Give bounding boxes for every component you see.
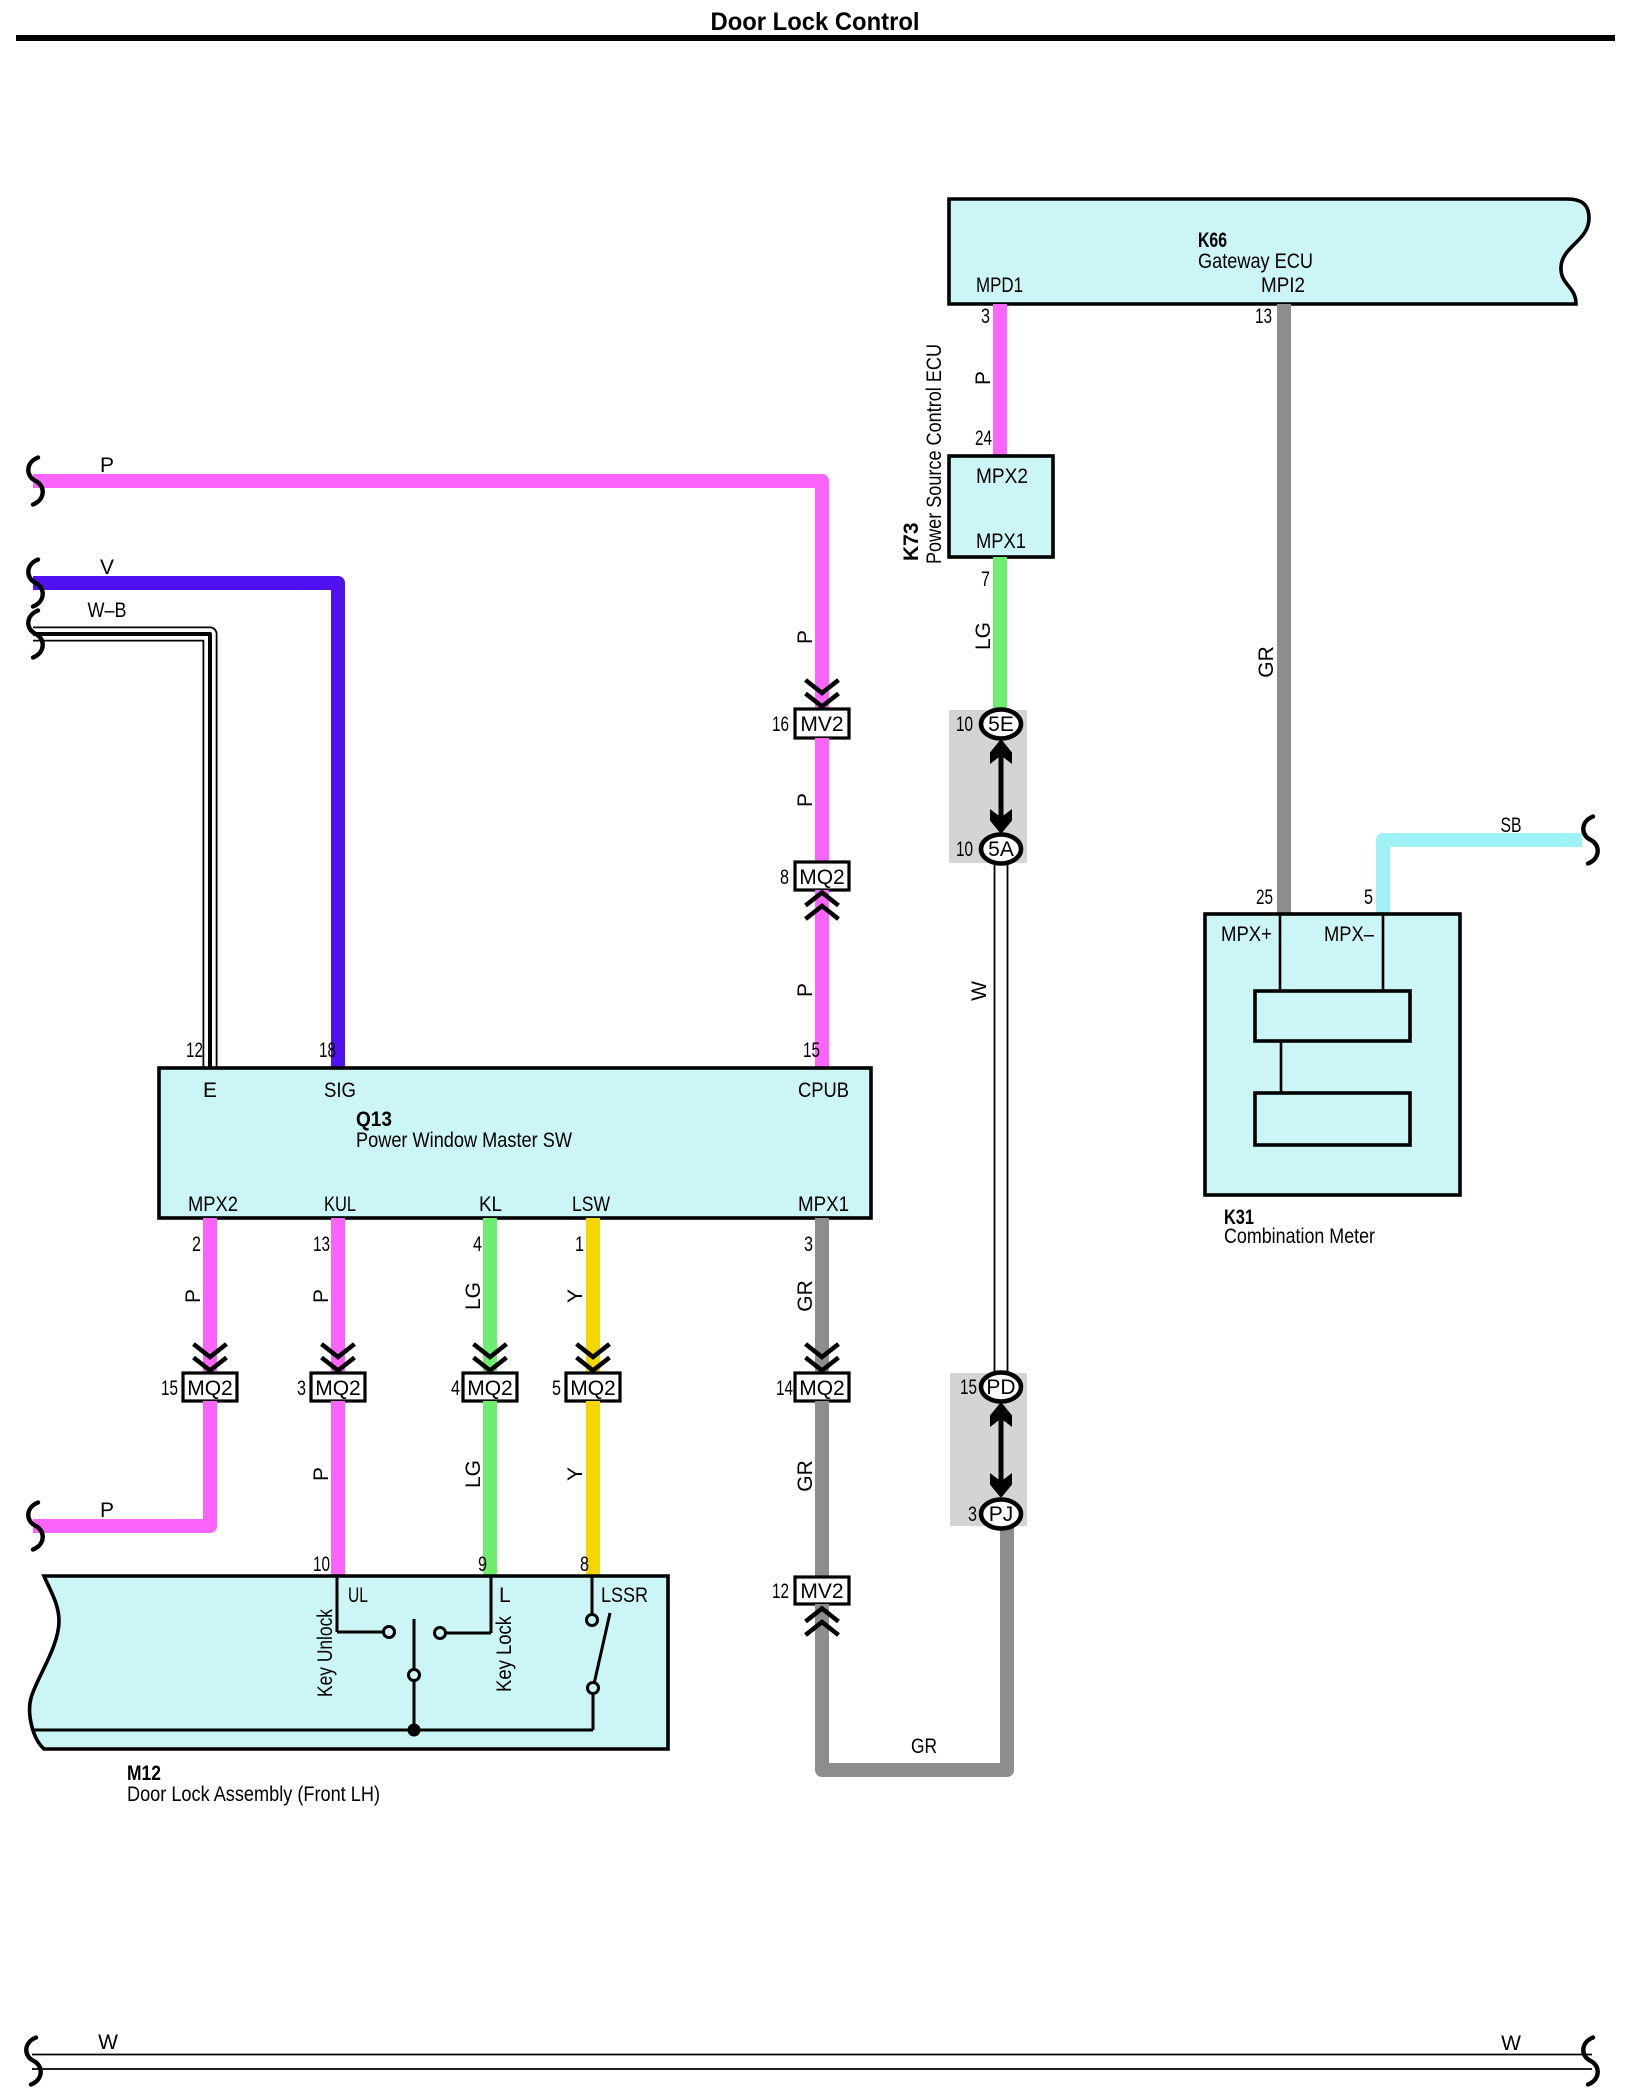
svg-text:5: 5: [1364, 886, 1373, 909]
M12 internal: LSSR lead: [591, 1576, 594, 1614]
box M12: [30, 1576, 668, 1749]
svg-text:5E: 5E: [988, 713, 1014, 736]
chevron out of MQ2: [806, 893, 839, 920]
arrow between 5E and 5A: [999, 745, 1004, 828]
svg-text:MPX1: MPX1: [798, 1193, 849, 1216]
splice panel 5E/5A: [949, 710, 1027, 863]
M12 internal: LSSR switch arm: [594, 1613, 610, 1684]
wire P : from break, right and down to MV2/MQ2 and Q13 CPUB: [33, 481, 822, 709]
svg-text:KL: KL: [479, 1193, 502, 1216]
svg-text:25: 25: [1256, 886, 1273, 909]
wire P : K66 MPD1 pin3 to K73 MPX2 pin24: [993, 304, 1007, 456]
wire LG : MQ2 pin4 to M12 pin9: [483, 1401, 497, 1575]
svg-text:MPX+: MPX+: [1221, 923, 1272, 946]
svg-text:10: 10: [956, 838, 973, 861]
wire GR : Q13 MPX1 to MQ2: [815, 1218, 829, 1373]
M12 internal: L contact: [435, 1628, 446, 1639]
M12 internal: bottom bus: [33, 1729, 593, 1732]
svg-text:4: 4: [451, 1377, 460, 1400]
wire LG : Q13 KL to MQ2: [483, 1218, 497, 1373]
internal lead MPX+: [1279, 914, 1282, 991]
svg-text:MPD1: MPD1: [976, 274, 1023, 297]
wire GR : MV2 pin12 down, right and up to splice PJ: [822, 1528, 1007, 1770]
svg-text:Y: Y: [564, 1289, 587, 1303]
svg-text:8: 8: [580, 1553, 589, 1576]
wire LG : K73 MPX1 pin7 to splice 5E: [993, 557, 1007, 710]
svg-text:P: P: [972, 371, 995, 385]
svg-text:GR: GR: [794, 1460, 817, 1492]
svg-text:LSW: LSW: [572, 1193, 610, 1216]
wire P : MQ2 to Q13 CPUB: [815, 890, 829, 1068]
M12 internal: UL lead: [336, 1576, 339, 1632]
svg-text:MV2: MV2: [800, 713, 843, 736]
svg-text:MV2: MV2: [800, 1580, 843, 1603]
svg-text:Power Window Master SW: Power Window Master SW: [356, 1129, 572, 1152]
connector MQ2 pin8: [795, 862, 849, 890]
svg-text:CPUB: CPUB: [798, 1079, 849, 1102]
svg-text:P: P: [100, 1499, 114, 1522]
svg-text:13: 13: [313, 1233, 330, 1256]
svg-text:UL: UL: [348, 1584, 368, 1607]
M12 internal: key switch pole: [413, 1619, 416, 1730]
svg-text:3: 3: [804, 1233, 813, 1256]
connector block K73 MPX2/MPX1: [949, 456, 1053, 557]
wire GR : MQ2 pin14 to MV2 pin12: [815, 1401, 829, 1577]
chevron into MV2: [806, 680, 839, 707]
svg-text:Key Unlock: Key Unlock: [314, 1609, 337, 1697]
ECU box K66 Gateway ECU: [949, 199, 1589, 304]
chevron out of MV2 pin12: [806, 1609, 839, 1636]
internal link: [1280, 1041, 1283, 1093]
svg-text:MQ2: MQ2: [570, 1377, 616, 1400]
svg-text:Key Lock: Key Lock: [493, 1616, 516, 1692]
wire break squiggle (SB): [1583, 817, 1597, 864]
svg-text:SB: SB: [1501, 814, 1522, 837]
svg-text:Combination Meter: Combination Meter: [1224, 1225, 1375, 1248]
svg-text:MQ2: MQ2: [315, 1377, 361, 1400]
svg-text:SIG: SIG: [324, 1079, 356, 1102]
svg-text:W–B: W–B: [88, 599, 127, 622]
connector oval PJ: [981, 1500, 1021, 1529]
connector MQ2 pin14: [795, 1373, 849, 1401]
box K31: [1205, 914, 1460, 1195]
svg-text:Power Source Control ECU: Power Source Control ECU: [923, 344, 946, 564]
svg-text:MPX1: MPX1: [976, 530, 1026, 553]
connector MQ2 pin5: [566, 1373, 620, 1401]
svg-text:P: P: [794, 793, 817, 807]
internal block 1: [1255, 991, 1410, 1041]
svg-text:Q13: Q13: [356, 1108, 392, 1131]
svg-text:7: 7: [981, 568, 990, 591]
chevron into MQ2 pin4: [474, 1344, 507, 1371]
wire Y : MQ2 pin5 to M12 pin8: [586, 1401, 600, 1575]
svg-text:MQ2: MQ2: [799, 866, 845, 889]
svg-text:10: 10: [313, 1553, 330, 1576]
svg-text:GR: GR: [1255, 646, 1278, 678]
wire SB : K31 pin5 up and right to break: [1383, 840, 1582, 914]
wire W : splice 5A to splice PD (white wire, double line): [994, 863, 996, 1374]
connector MV2 pin16: [795, 709, 849, 738]
M12 internal: UL contact: [384, 1627, 395, 1638]
chevron into MQ2 pin15: [194, 1344, 227, 1371]
svg-text:P: P: [794, 630, 817, 644]
chevron into MQ2 pin5: [577, 1344, 610, 1371]
svg-text:2: 2: [192, 1233, 201, 1256]
M12 internal: L lead: [490, 1576, 493, 1633]
svg-text:1: 1: [575, 1233, 584, 1256]
svg-text:W: W: [968, 981, 991, 1001]
svg-text:GR: GR: [911, 1735, 937, 1758]
svg-text:V: V: [100, 556, 114, 579]
svg-text:P: P: [182, 1289, 205, 1303]
chevron into MQ2 pin14: [806, 1344, 839, 1371]
title rule: [16, 35, 1615, 41]
svg-text:P: P: [100, 454, 114, 477]
svg-text:M12: M12: [127, 1762, 161, 1785]
connector MQ2 pin3: [311, 1373, 365, 1401]
svg-text:Door Lock Control: Door Lock Control: [711, 8, 920, 36]
svg-text:PJ: PJ: [989, 1503, 1014, 1526]
svg-text:13: 13: [1255, 305, 1272, 328]
svg-text:MPX2: MPX2: [976, 465, 1028, 488]
svg-text:14: 14: [776, 1377, 793, 1400]
wire P : MV2 to MQ2: [815, 738, 829, 862]
svg-text:3: 3: [297, 1377, 306, 1400]
wire P : Q13 MPX2 to MQ2: [203, 1218, 217, 1373]
connector MV2 pin12: [795, 1577, 849, 1604]
internal lead MPX-: [1382, 914, 1385, 991]
svg-text:W: W: [1501, 2032, 1521, 2055]
svg-text:Gateway ECU: Gateway ECU: [1198, 250, 1313, 273]
wire GR : K66 MPI2 pin13 to K31 pin25: [1277, 304, 1291, 914]
connector MQ2 pin4: [463, 1373, 517, 1401]
wire W : ground bus (white wire, double line): [32, 2054, 1592, 2056]
svg-text:15: 15: [803, 1039, 820, 1062]
svg-text:15: 15: [960, 1376, 977, 1399]
svg-text:MPX2: MPX2: [188, 1193, 238, 1216]
svg-text:MPX–: MPX–: [1324, 923, 1374, 946]
svg-text:L: L: [499, 1584, 511, 1607]
svg-text:4: 4: [473, 1233, 482, 1256]
svg-text:12: 12: [186, 1039, 203, 1062]
svg-text:P: P: [310, 1467, 333, 1481]
svg-text:24: 24: [975, 427, 992, 450]
connector oval 5E: [981, 710, 1021, 739]
svg-text:5: 5: [552, 1377, 561, 1400]
chevron into MQ2 pin3: [322, 1344, 355, 1371]
internal block 2: [1255, 1093, 1410, 1145]
svg-text:3: 3: [981, 305, 990, 328]
M12 internal: junction: [408, 1724, 421, 1737]
connector oval PD: [981, 1373, 1021, 1402]
connector MQ2 pin15: [183, 1373, 237, 1401]
svg-text:5A: 5A: [988, 838, 1014, 861]
svg-text:MQ2: MQ2: [187, 1377, 233, 1400]
box Q13: [159, 1068, 871, 1218]
wire P : MQ2 pin15 left to break: [33, 1401, 210, 1526]
wire Y : Q13 LSW to MQ2: [586, 1218, 600, 1373]
svg-text:Door Lock Assembly (Front LH): Door Lock Assembly (Front LH): [127, 1783, 380, 1806]
svg-text:18: 18: [319, 1039, 336, 1062]
svg-text:12: 12: [772, 1580, 789, 1603]
arrow between PD and PJ: [999, 1408, 1004, 1492]
svg-text:3: 3: [968, 1503, 977, 1526]
svg-text:8: 8: [780, 866, 789, 889]
svg-text:LG: LG: [462, 1460, 485, 1488]
svg-text:Y: Y: [564, 1467, 587, 1481]
svg-text:P: P: [794, 983, 817, 997]
svg-text:MQ2: MQ2: [467, 1377, 513, 1400]
svg-text:9: 9: [478, 1553, 487, 1576]
wire P : MQ2 pin3 to M12 pin10: [331, 1401, 345, 1575]
wire W-B : from break to Q13 E (white wire, black stripe): [33, 634, 210, 1068]
connector oval 5A: [981, 835, 1021, 864]
svg-text:E: E: [203, 1079, 217, 1102]
svg-text:K73: K73: [900, 522, 923, 561]
svg-text:W: W: [98, 2031, 118, 2054]
svg-text:15: 15: [161, 1377, 178, 1400]
svg-text:KUL: KUL: [324, 1193, 356, 1216]
svg-text:LSSR: LSSR: [601, 1584, 648, 1607]
svg-text:K66: K66: [1198, 229, 1227, 252]
svg-text:MQ2: MQ2: [799, 1377, 845, 1400]
wire V : from break to Q13 SIG: [33, 583, 338, 1068]
svg-text:16: 16: [772, 713, 789, 736]
svg-text:GR: GR: [794, 1280, 817, 1312]
svg-text:LG: LG: [972, 622, 995, 650]
svg-text:P: P: [310, 1289, 333, 1303]
svg-text:MPI2: MPI2: [1261, 274, 1305, 297]
svg-text:LG: LG: [462, 1282, 485, 1310]
wire P : Q13 KUL to MQ2: [331, 1218, 345, 1373]
svg-text:PD: PD: [986, 1376, 1015, 1399]
svg-text:10: 10: [956, 713, 973, 736]
